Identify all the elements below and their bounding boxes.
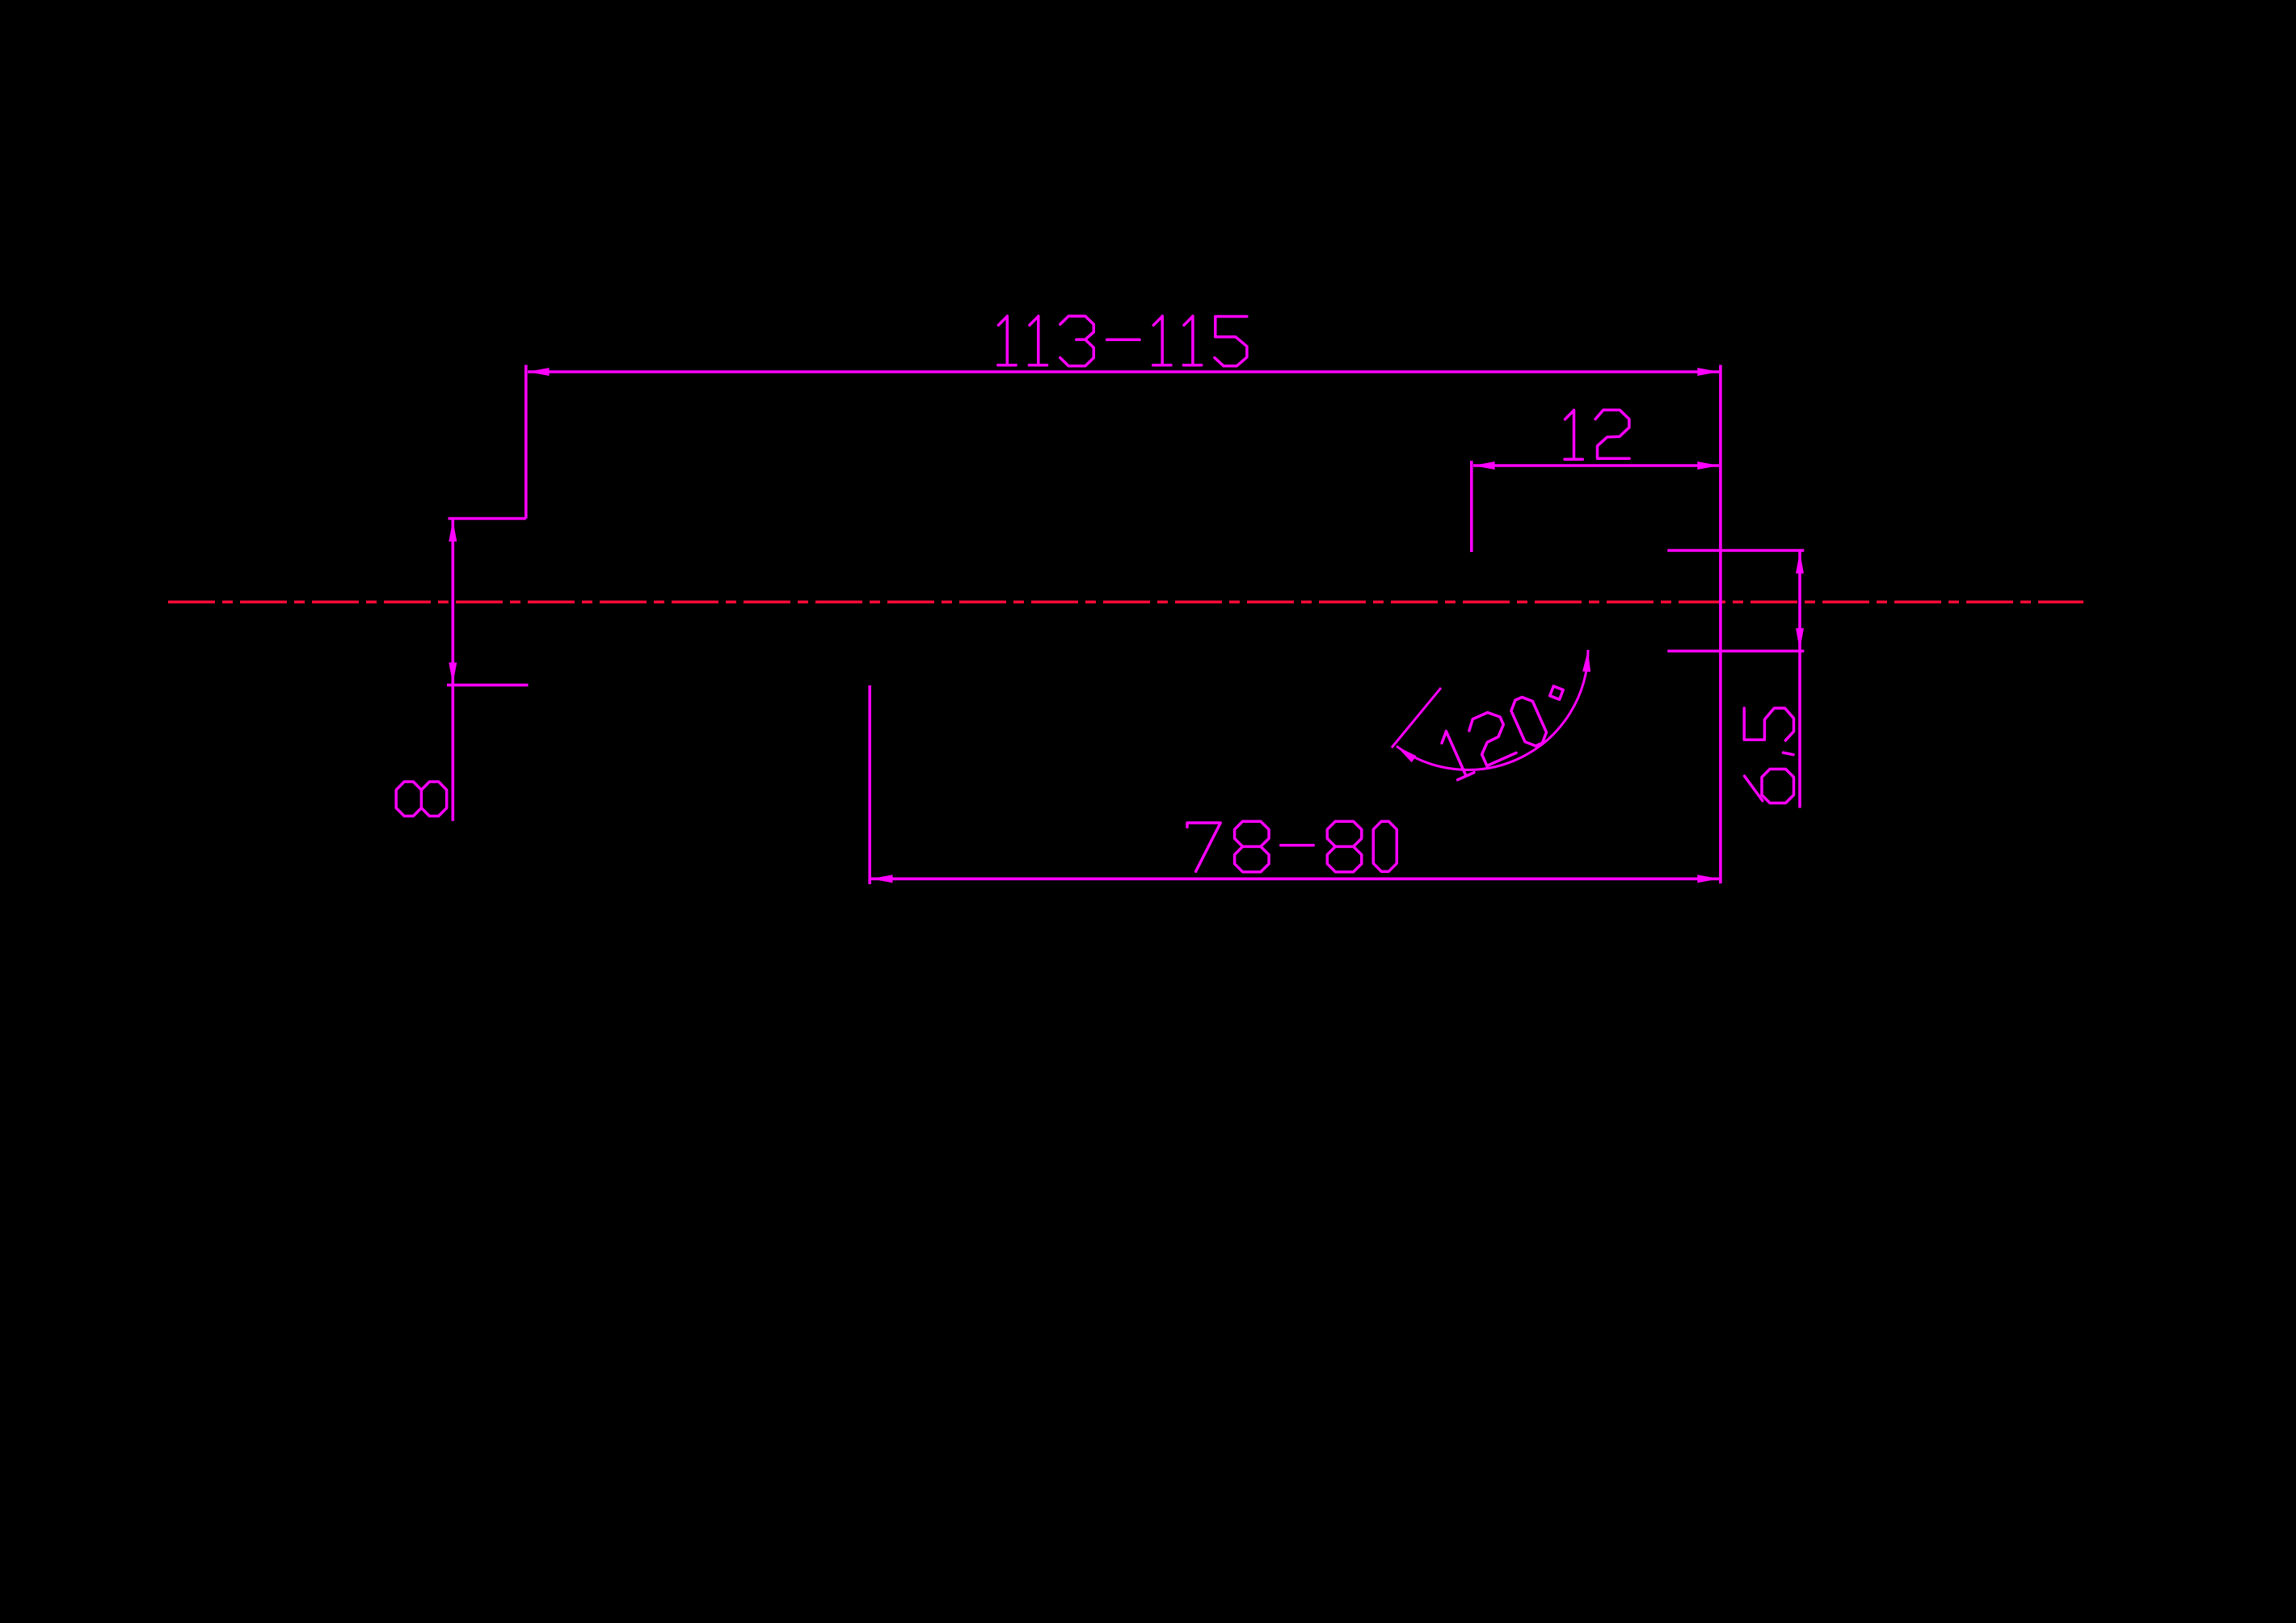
dim 78-80: dimension line — [871, 878, 1719, 881]
dim 12: right arrow — [1697, 462, 1719, 470]
dim 78-80: right arrow — [1697, 875, 1719, 883]
dim 113-115: left arrow — [528, 368, 550, 376]
dim 120deg: text (rotated) — [1438, 694, 1550, 781]
dim 120deg: extension leg line — [1392, 688, 1441, 748]
part profile: lower step line — [447, 684, 529, 687]
dim 120deg: arrow at angled leg (points up-left) — [1397, 746, 1417, 762]
dim 12: left extension line — [1470, 461, 1473, 552]
dim 12: dimension line — [1473, 464, 1719, 467]
dim 78-80: left arrow — [871, 875, 893, 883]
dim 6.5: down arrow — [1796, 628, 1804, 650]
dim 120deg: arrow at horizontal leg (points up) — [1582, 650, 1590, 672]
dim 113-115: right extension line — [1719, 365, 1722, 884]
dim 113-115: text — [998, 316, 1247, 366]
dim 12: text — [1565, 410, 1629, 459]
slot: upper edge line — [1667, 549, 1804, 552]
part profile: upper step line — [449, 517, 526, 521]
dim 12: left arrow — [1473, 462, 1495, 470]
dim 113-115: right arrow — [1697, 368, 1719, 376]
centerline (red dash-dot) — [168, 601, 2083, 604]
dim 6.5: dimension line — [1798, 550, 1801, 808]
dim 6.5: text (rotated) — [1744, 708, 1793, 803]
dim 8: text (rotated) — [396, 782, 447, 816]
slot: lower edge line — [1667, 650, 1804, 653]
dim 113-115: dimension line — [528, 370, 1719, 373]
dim 120deg: arc — [1397, 650, 1588, 769]
dim 8: down arrow — [449, 663, 457, 685]
dim 8: dimension line — [451, 520, 454, 821]
dim 78-80: left extension line — [868, 685, 871, 884]
dim 6.5: up arrow — [1796, 552, 1804, 574]
dim 8: up arrow — [449, 520, 457, 542]
dim 113-115: left extension line — [524, 365, 528, 519]
dim 78-80: text — [1187, 821, 1397, 872]
